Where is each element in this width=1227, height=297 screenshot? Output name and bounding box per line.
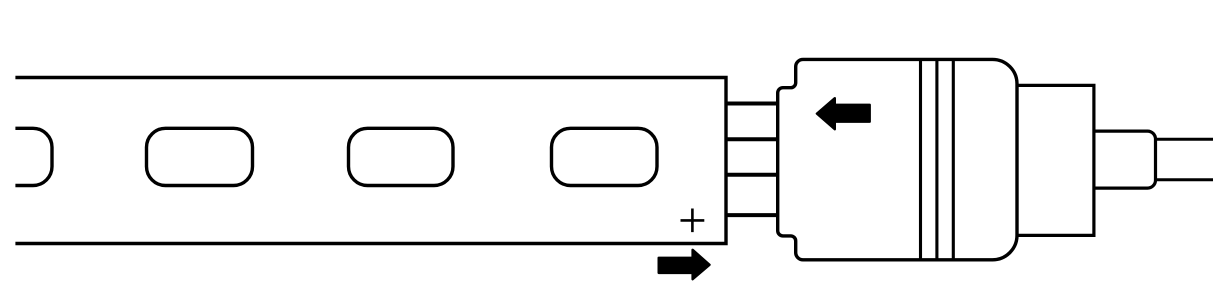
pin 3 bbox=[725, 173, 780, 177]
connector latch line 1 bbox=[919, 59, 922, 259]
wire 2 bbox=[1156, 178, 1214, 181]
connector body outline bbox=[778, 59, 1017, 259]
connector latch line 2 bbox=[935, 59, 938, 259]
cable boot bbox=[1094, 131, 1156, 188]
wire 1 bbox=[1156, 138, 1214, 141]
pad hole 4 bbox=[552, 128, 658, 185]
pad hole 3 bbox=[349, 128, 454, 185]
pad hole 2 bbox=[147, 128, 253, 185]
polarity plus mark bbox=[681, 209, 705, 233]
pin 4 bbox=[725, 213, 780, 217]
pin 2 bbox=[725, 137, 780, 141]
LED strip body bbox=[14, 78, 726, 244]
arrow into connector (left) bbox=[817, 98, 870, 129]
connector latch line 3 bbox=[952, 59, 955, 259]
strain relief block bbox=[1017, 85, 1094, 235]
pin 1 bbox=[725, 102, 780, 106]
pad hole 1 (clipped at left) bbox=[0, 128, 52, 185]
arrow along strip (right) bbox=[659, 250, 710, 279]
